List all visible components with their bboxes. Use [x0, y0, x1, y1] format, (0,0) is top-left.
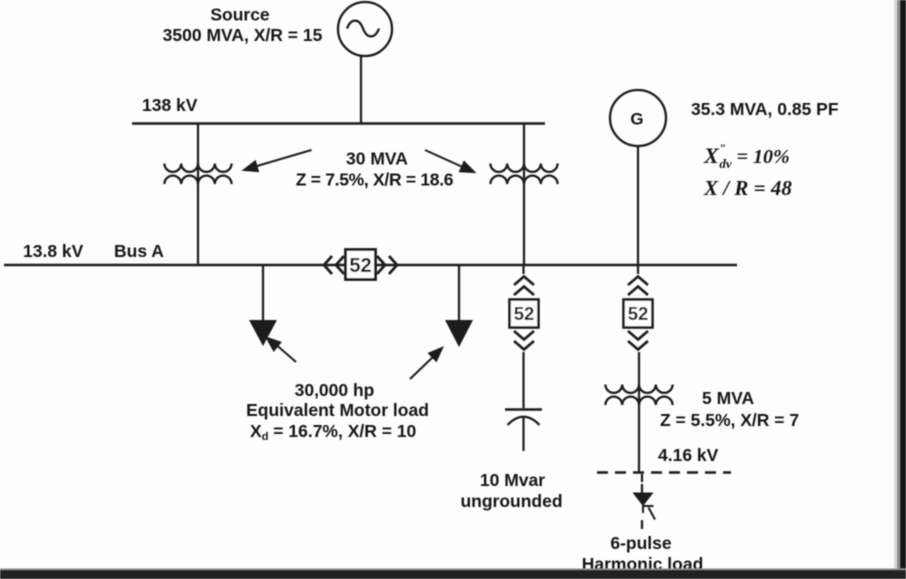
svg-text:52: 52	[514, 303, 535, 324]
generator G1	[610, 90, 666, 146]
transformer T3 (5 MVA) primary winding	[605, 385, 672, 393]
wire Bus A to breaker 52 (capacitor feeder)	[522, 266, 524, 274]
bus 138 kV	[132, 122, 545, 125]
wire breaker to transformer T3	[638, 352, 640, 472]
wire Bus A to breaker 52 (transformer feeder)	[637, 266, 639, 274]
svg-text:G: G	[630, 110, 643, 129]
svg-text:Bus A: Bus A	[114, 241, 164, 261]
svg-text:5 MVA: 5 MVA	[702, 388, 755, 408]
svg-text:30,000 hp: 30,000 hp	[295, 380, 375, 400]
svg-text:Xd = 16.7%, X/R = 10: Xd = 16.7%, X/R = 10	[250, 421, 417, 443]
wire Bus A to motor load M1	[262, 266, 264, 322]
scan border right	[894, 0, 897, 579]
annotation arrow to motor load M2	[410, 348, 442, 379]
svg-text:138 kV: 138 kV	[142, 95, 198, 115]
svg-text:10 Mvar: 10 Mvar	[480, 470, 545, 490]
motor load M2 (arrow)	[445, 320, 473, 347]
svg-text:6-pulse: 6-pulse	[610, 533, 672, 553]
annotation arrow to motor load M1	[267, 338, 296, 362]
annotation arrow to transformer T1	[244, 150, 312, 171]
wire 4.16 kV bus to thyristor (dashed)	[641, 474, 643, 482]
svg-text:Source: Source	[210, 5, 270, 25]
annotation arrow to transformer T2	[425, 150, 474, 172]
svg-text:52: 52	[628, 303, 649, 324]
wire breaker to capacitor C1	[522, 352, 524, 408]
wire Bus A to motor load M2	[458, 266, 460, 322]
motor load M1 (arrow)	[249, 320, 277, 346]
transformer T3 secondary winding	[605, 397, 672, 405]
wire below thyristor (dashed)	[641, 520, 643, 529]
wire below capacitor C1	[522, 418, 524, 452]
svg-text:ungrounded: ungrounded	[460, 491, 562, 511]
svg-text:52: 52	[349, 255, 371, 277]
bus 4.16 kV (dashed)	[597, 471, 731, 474]
svg-text:4.16 kV: 4.16 kV	[658, 445, 719, 465]
svg-text:Z = 7.5%, X/R = 18.6: Z = 7.5%, X/R = 18.6	[296, 170, 454, 190]
capacitor C1 bottom plate (curved)	[508, 417, 540, 425]
thyristor (6-pulse converter)	[635, 493, 656, 520]
transformer T2 (30 MVA) primary winding	[490, 164, 557, 172]
wire source to 138 kV bus	[360, 56, 362, 123]
svg-text:X″dv = 10%: X″dv = 10%	[703, 141, 790, 171]
svg-text:30 MVA: 30 MVA	[346, 149, 408, 169]
svg-text:3500 MVA, X/R = 15: 3500 MVA, X/R = 15	[163, 25, 323, 45]
svg-text:Z = 5.5%, X/R = 7: Z = 5.5%, X/R = 7	[660, 410, 799, 430]
svg-text:X / R = 48: X / R = 48	[703, 176, 792, 200]
svg-text:Equivalent Motor load: Equivalent Motor load	[246, 400, 429, 420]
wire generator to Bus A	[637, 146, 639, 265]
breaker 52 capacitor feeder	[510, 277, 539, 350]
source S1 (utility equivalent)	[338, 2, 392, 56]
scan border bottom	[0, 569, 906, 571]
wire 138kV bus to transformer T1	[197, 124, 199, 265]
wire 138kV bus to transformer T2	[523, 124, 525, 265]
transformer T1 (30 MVA) primary winding	[164, 164, 231, 172]
transformer T2 secondary winding	[490, 176, 557, 184]
breaker 52 transformer feeder	[624, 277, 653, 350]
svg-text:13.8 kV: 13.8 kV	[23, 241, 84, 261]
breaker 52 bus tie (drawout chevrons)	[324, 250, 397, 280]
transformer T1 secondary winding	[164, 176, 231, 184]
capacitor C1 top plate	[505, 408, 542, 411]
bus A 13.8 kV	[4, 264, 737, 267]
svg-text:35.3 MVA, 0.85 PF: 35.3 MVA, 0.85 PF	[691, 99, 839, 119]
